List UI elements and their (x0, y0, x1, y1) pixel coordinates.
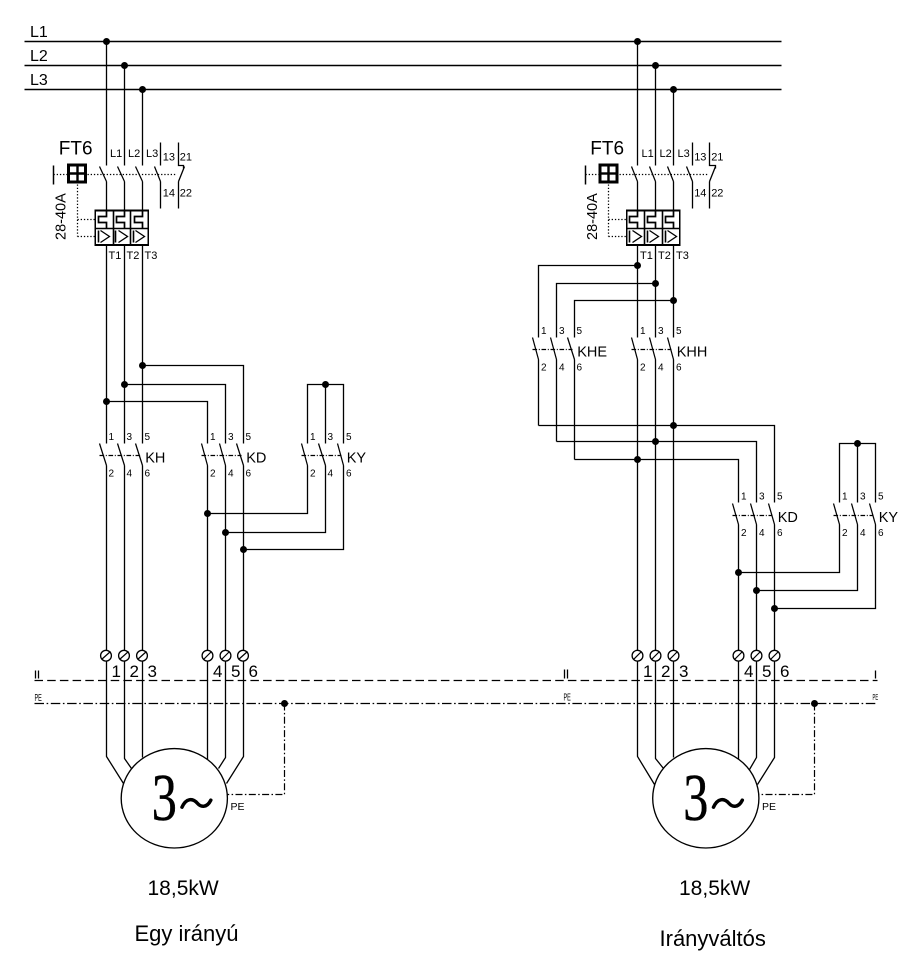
svg-text:1: 1 (541, 326, 547, 337)
svg-text:1: 1 (210, 432, 216, 443)
node KHH pole 2 junction (634, 456, 641, 463)
svg-text:T2: T2 (127, 250, 140, 262)
contactor KHH pole 3 contact (668, 338, 674, 360)
terminal 3 (137, 650, 148, 661)
svg-text:5: 5 (145, 432, 151, 443)
contactor KD pole 2 contact (220, 444, 226, 466)
breaker FT6 pole L2 contact (650, 167, 656, 182)
svg-text:1: 1 (111, 662, 120, 681)
motor M 3~ circle (121, 749, 227, 848)
svg-text:L3: L3 (678, 148, 690, 160)
wire terminal 5 to motor V2 right (750, 662, 757, 770)
breaker FT6 aux contact 13-14 (NO) (160, 143, 162, 166)
svg-text:3: 3 (228, 432, 234, 443)
svg-text:L1: L1 (110, 148, 122, 160)
svg-text:1: 1 (109, 432, 115, 443)
motor 3~ label (683, 760, 708, 835)
svg-text:18,5kW: 18,5kW (148, 877, 219, 900)
overload relay heater element pole 1 (630, 211, 638, 229)
wire KY pole 6 to KD pole 6 (244, 466, 344, 550)
svg-text:2: 2 (310, 469, 316, 480)
node KHH pole 4 junction (652, 438, 659, 445)
node L3 tap left circuit (139, 86, 146, 93)
contactor KH pole 2 contact (118, 444, 125, 466)
node PE tap left (281, 700, 288, 707)
wire KD pole 4 to terminal 5 (225, 466, 227, 651)
svg-text:5: 5 (246, 432, 252, 443)
svg-text:2: 2 (210, 469, 216, 480)
svg-text:6: 6 (676, 363, 682, 374)
node tap to KHE pole 5 (670, 297, 677, 304)
wire tap to KHE pole 3 (557, 284, 656, 338)
node L2 tap right circuit (652, 62, 659, 69)
svg-text:13: 13 (694, 152, 706, 164)
wire KHH pole 6 to terminal 3 (673, 360, 675, 651)
motor 3~ label (152, 760, 177, 835)
svg-text:5: 5 (762, 662, 771, 681)
overload relay trip symbol pole 3 (133, 231, 135, 243)
svg-text:3: 3 (127, 432, 133, 443)
svg-text:2: 2 (661, 662, 670, 681)
svg-text:KD: KD (246, 451, 266, 467)
contactor KY pole 2 contact (852, 504, 858, 525)
wire terminal 3 to motor W1 (142, 662, 144, 758)
node tap to KHE pole 3 (652, 280, 659, 287)
cable mark left (35, 671, 37, 679)
contactor KD pole 2 contact (751, 504, 757, 525)
overload relay block dividers (113, 211, 115, 246)
svg-text:KD: KD (778, 510, 798, 526)
svg-text:2: 2 (541, 363, 547, 374)
contactor KD mechanical linkage (733, 515, 773, 517)
svg-text:18,5kW: 18,5kW (679, 877, 750, 900)
wire L1 to breaker left (106, 42, 108, 166)
svg-text:3: 3 (559, 326, 565, 337)
contactor KY pole 1 contact (834, 504, 840, 525)
overload relay heater element pole 1 (99, 211, 107, 229)
breaker FT6 pole L2 contact (118, 167, 125, 182)
wire tap to KD pole 5 (143, 366, 244, 444)
svg-text:4: 4 (328, 469, 334, 480)
contactor KY mechanical linkage (834, 515, 874, 517)
wire overload T1 down to KH pole 1 (106, 246, 108, 444)
wire terminal 3 to motor W1 right (673, 662, 675, 758)
svg-text:3: 3 (328, 432, 334, 443)
svg-text:21: 21 (180, 152, 192, 164)
svg-text:2: 2 (109, 469, 115, 480)
overload relay trip symbol pole 2 (115, 231, 117, 243)
wire KD pole 6 to terminal 6 right (774, 525, 776, 651)
terminal 4 (202, 650, 213, 661)
svg-text:T1: T1 (640, 250, 653, 262)
wire KHE pole 2 down (538, 360, 540, 426)
svg-text:T1: T1 (109, 250, 122, 262)
node tap to KHE pole 1 (634, 262, 641, 269)
svg-text:4: 4 (559, 363, 565, 374)
overload relay block dividers (644, 211, 646, 246)
svg-text:3: 3 (679, 662, 688, 681)
svg-text:L1: L1 (642, 148, 654, 160)
contactor KH pole 1 contact (100, 444, 107, 466)
svg-text:T3: T3 (145, 250, 158, 262)
contactor KHE pole 3 contact (568, 338, 575, 360)
svg-text:6: 6 (878, 528, 884, 539)
node L3 tap right circuit (670, 86, 677, 93)
terminal 6 (769, 650, 780, 661)
overload relay heater element pole 3 (135, 211, 143, 229)
breaker FT6 trip linkage dotted line to overload (608, 185, 610, 237)
wire terminal 2 to motor V1 right (656, 662, 664, 769)
svg-text:L2: L2 (128, 148, 140, 160)
breaker FT6 trip linkage dotted line to overload (77, 185, 79, 237)
svg-text:KHH: KHH (677, 345, 708, 361)
svg-text:14: 14 (694, 188, 706, 200)
wire overload T1 down to KHH pole 1 (637, 246, 639, 338)
node L1 tap left circuit (103, 38, 110, 45)
breaker FT6 actuator left terminal bar (585, 166, 587, 185)
contactor KHE pole 2 contact (551, 338, 557, 360)
svg-text:2: 2 (842, 528, 848, 539)
wire KY pole 2 to KD pole 2 (208, 466, 308, 514)
node KHH pole 6 junction (670, 422, 677, 429)
wire terminal 4 to motor U2 right (738, 662, 740, 760)
node KY star bridge junction right (854, 440, 861, 447)
node KY-KD junction a (204, 510, 211, 517)
svg-text:5: 5 (346, 432, 352, 443)
wire KY pole 6 to KD pole 6 right (775, 525, 876, 609)
svg-text:PE: PE (873, 694, 879, 703)
contactor KD mechanical linkage (202, 455, 242, 457)
svg-text:KY: KY (347, 451, 367, 467)
svg-text:2: 2 (741, 528, 747, 539)
overload relay block FT6 outline (627, 211, 680, 246)
svg-text:4: 4 (860, 528, 866, 539)
svg-text:FT6: FT6 (590, 139, 624, 160)
wire L3 to breaker right (673, 90, 675, 166)
svg-text:4: 4 (127, 469, 133, 480)
cable mark right (875, 671, 877, 679)
breaker FT6 aux contact 21-22 (NC) (710, 143, 716, 169)
svg-text:28-40A: 28-40A (54, 193, 70, 240)
contactor KHE pole 1 contact (533, 338, 539, 360)
svg-text:Egy irányú: Egy irányú (135, 921, 239, 946)
wire KY pole 4 to KD pole 4 right (757, 525, 858, 591)
contactor KY pole 1 contact (302, 444, 308, 466)
wire terminal 5 to motor V2 (219, 662, 226, 769)
svg-text:T2: T2 (658, 250, 671, 262)
svg-text:3: 3 (152, 760, 177, 835)
svg-text:5: 5 (878, 492, 884, 503)
wire overload T3 down to KH pole 5 (142, 246, 144, 444)
wire terminal 6 to motor W2 right (758, 662, 775, 785)
breaker FT6 actuator left terminal bar (53, 166, 55, 185)
svg-text:5: 5 (676, 326, 682, 337)
node L1 tap right circuit (634, 38, 641, 45)
wire terminal 1 to motor U1 right (638, 662, 655, 785)
terminal 6 (238, 650, 249, 661)
svg-text:22: 22 (711, 188, 723, 200)
node tap to KD pole 3 (121, 381, 128, 388)
node KY-KD junction c right (771, 605, 778, 612)
breaker FT6 pole L3 contact (136, 167, 143, 182)
svg-text:L3: L3 (146, 148, 158, 160)
svg-text:2: 2 (129, 662, 138, 681)
wire KHE-4/KHH-4 to KD pole 3 (557, 442, 757, 503)
svg-text:3: 3 (658, 326, 664, 337)
terminal 2 (650, 650, 661, 661)
wire KHE pole 4 down (556, 360, 558, 442)
breaker FT6 aux contact 13-14 (NO) (692, 143, 694, 166)
svg-text:3: 3 (147, 662, 156, 681)
node tap to KD pole 1 (103, 398, 110, 405)
breaker FT6 actuator square (69, 165, 86, 182)
overload relay trip symbol pole 1 (629, 231, 631, 243)
PE earth line (35, 703, 878, 705)
contactor KY pole 3 contact (870, 504, 876, 525)
terminal 3 (668, 650, 679, 661)
svg-text:13: 13 (163, 152, 175, 164)
overload relay heater element pole 3 (666, 211, 674, 229)
svg-text:5: 5 (777, 492, 783, 503)
breaker FT6 pole L3 contact (668, 167, 674, 182)
svg-text:5: 5 (231, 662, 240, 681)
wire KH pole 4 to terminal 2 (124, 466, 126, 651)
svg-text:4: 4 (658, 363, 664, 374)
contactor KY star bridge (308, 385, 344, 444)
contactor KHE mechanical linkage (533, 349, 573, 351)
breaker FT6 aux contact 21-22 (NC) (179, 143, 184, 169)
contactor KY mechanical linkage (302, 455, 342, 457)
contactor KH pole 3 contact (136, 444, 143, 466)
power bus L2 (25, 65, 782, 67)
svg-text:KY: KY (879, 510, 899, 526)
contactor KY star bridge right (840, 444, 876, 503)
svg-text:21: 21 (711, 152, 723, 164)
wire KD pole 4 to terminal 5 right (756, 525, 758, 651)
svg-text:6: 6 (577, 363, 583, 374)
svg-text:3: 3 (759, 492, 765, 503)
wire KD pole 2 to terminal 4 right (738, 525, 740, 651)
terminal 4 (733, 650, 744, 661)
svg-text:L1: L1 (30, 24, 48, 41)
wire tap to KD pole 1 (107, 402, 208, 444)
svg-text:PE: PE (762, 801, 776, 813)
terminal 2 (119, 650, 130, 661)
svg-text:6: 6 (777, 528, 783, 539)
node L2 tap left circuit (121, 62, 128, 69)
svg-text:22: 22 (180, 188, 192, 200)
wire overload T2 down to KHH pole 3 (655, 246, 657, 338)
contactor KD pole 3 contact (769, 504, 775, 525)
contactor KD pole 3 contact (237, 444, 244, 466)
svg-text:4: 4 (759, 528, 765, 539)
svg-text:L3: L3 (30, 72, 48, 89)
wire terminal 1 to motor U1 (107, 662, 124, 784)
svg-text:5: 5 (577, 326, 583, 337)
svg-text:6: 6 (248, 662, 257, 681)
wire KHH pole 2 to terminal 1 (637, 360, 639, 651)
wire KY pole 2 to KD pole 2 right (739, 525, 840, 573)
breaker FT6 pole L1 contact (100, 167, 107, 182)
wire L3 to breaker left (142, 90, 144, 166)
overload relay block FT6 outline (95, 211, 148, 246)
wire tap to KHE pole 5 (575, 301, 674, 338)
svg-text:6: 6 (346, 469, 352, 480)
PE wire to left motor (228, 704, 285, 795)
node KY-KD junction b (222, 529, 229, 536)
node KY-KD junction b right (753, 587, 760, 594)
overload relay heater element pole 2 (117, 211, 125, 229)
svg-text:6: 6 (780, 662, 789, 681)
wire overload T3 down to KHH pole 5 (673, 246, 675, 338)
svg-text:1: 1 (310, 432, 316, 443)
overload relay trip symbol pole 2 (647, 231, 649, 243)
node PE tap right (811, 700, 818, 707)
svg-text:4: 4 (744, 662, 753, 681)
svg-text:6: 6 (145, 469, 151, 480)
wire L2 to breaker left (124, 66, 126, 166)
terminal 5 (220, 650, 231, 661)
wire terminal 2 to motor V1 (125, 662, 132, 769)
power bus L1 (25, 41, 782, 43)
contactor KD pole 1 contact (733, 504, 739, 525)
terminal 5 (751, 650, 762, 661)
breaker FT6 actuator linkage dotted wire (54, 174, 69, 176)
wire KH pole 6 to terminal 3 (142, 466, 144, 651)
overload relay trip symbol pole 3 (665, 231, 667, 243)
contactor KY pole 3 contact (338, 444, 344, 466)
breaker FT6 pole L1 contact (632, 167, 638, 182)
svg-text:2: 2 (640, 363, 646, 374)
wire KD pole 6 to terminal 6 (243, 466, 245, 651)
breaker FT6 pole linkage dotted line (88, 174, 177, 176)
svg-text:PE: PE (231, 801, 245, 813)
svg-text:KH: KH (145, 451, 165, 467)
node KY-KD junction c (240, 546, 247, 553)
wire overload T2 down to KH pole 3 (124, 246, 126, 444)
svg-text:3: 3 (860, 492, 866, 503)
wire tap to KHE pole 1 (539, 266, 638, 338)
svg-text:L2: L2 (30, 48, 48, 65)
svg-text:1: 1 (643, 662, 652, 681)
wire KH pole 2 to terminal 1 (106, 466, 108, 651)
wire terminal 4 to motor U2 (207, 662, 209, 760)
breaker FT6 actuator square (600, 165, 617, 182)
overload relay trip symbol pole 1 (98, 231, 100, 243)
wire KHE-2/KHH-6 to KD pole 5 (539, 426, 775, 503)
terminal 1 (632, 650, 643, 661)
svg-text:FT6: FT6 (59, 139, 93, 160)
svg-text:28-40A: 28-40A (585, 193, 601, 240)
svg-text:6: 6 (246, 469, 252, 480)
svg-text:PE: PE (564, 692, 572, 703)
wire L2 to breaker right (655, 66, 657, 166)
terminal 1 (101, 650, 112, 661)
contactor KH mechanical linkage (100, 455, 141, 457)
contactor KHH pole 2 contact (650, 338, 656, 360)
svg-text:4: 4 (228, 469, 234, 480)
svg-text:PE: PE (35, 692, 43, 703)
wire terminal 6 to motor W2 (227, 662, 244, 784)
PE wire to right motor (759, 704, 815, 795)
cable mark middle (564, 670, 566, 679)
wire KHE-6/KHH-2 to KD pole 1 (575, 460, 739, 503)
wire KHE pole 6 down (574, 360, 576, 460)
svg-text:4: 4 (213, 662, 222, 681)
node tap to KD pole 5 (139, 362, 146, 369)
svg-text:1: 1 (640, 326, 646, 337)
power bus L3 (25, 89, 782, 91)
breaker FT6 actuator linkage dotted wire (586, 174, 600, 176)
svg-text:KHE: KHE (577, 345, 607, 361)
svg-text:T3: T3 (676, 250, 689, 262)
wire KHH pole 4 to terminal 2 (655, 360, 657, 651)
node KY-KD junction a right (735, 569, 742, 576)
contactor KHH pole 1 contact (632, 338, 638, 360)
wire L1 to breaker right (637, 42, 639, 166)
node KY star bridge junction (322, 381, 329, 388)
contactor KD pole 1 contact (202, 444, 208, 466)
svg-text:L2: L2 (660, 148, 672, 160)
svg-text:3: 3 (683, 760, 708, 835)
motor M 3~ circle (653, 749, 759, 848)
svg-text:14: 14 (163, 188, 175, 200)
contactor KY pole 2 contact (319, 444, 326, 466)
svg-text:Irányváltós: Irányváltós (660, 926, 766, 951)
boundary dashed line (35, 680, 878, 682)
svg-text:1: 1 (842, 492, 848, 503)
wire tap to KD pole 3 (125, 385, 226, 444)
contactor KHH mechanical linkage (632, 349, 672, 351)
wire KY pole 4 to KD pole 4 (226, 466, 326, 533)
overload relay heater element pole 2 (648, 211, 656, 229)
wire KD pole 2 to terminal 4 (207, 466, 209, 651)
svg-text:1: 1 (741, 492, 747, 503)
breaker FT6 pole linkage dotted line (620, 174, 709, 176)
